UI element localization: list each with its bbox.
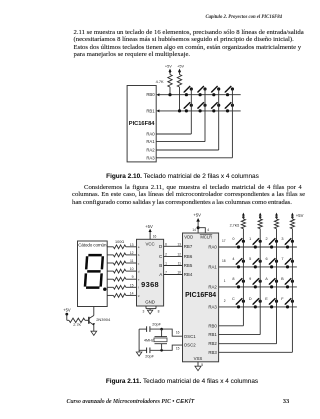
svg-text:C: C	[232, 297, 235, 301]
svg-text:6: 6	[265, 257, 267, 261]
svg-text:+5V: +5V	[296, 213, 304, 218]
svg-text:RB2: RB2	[208, 341, 217, 346]
svg-text:RB4: RB4	[184, 272, 193, 277]
svg-text:20pF: 20pF	[145, 355, 154, 359]
svg-text:12: 12	[130, 251, 134, 255]
svg-text:14: 14	[130, 291, 134, 295]
svg-text:18: 18	[222, 259, 226, 263]
svg-text:RA2: RA2	[146, 148, 155, 153]
svg-text:2: 2	[265, 237, 267, 241]
svg-text:RB3: RB3	[208, 350, 217, 355]
svg-text:2: 2	[165, 253, 167, 257]
svg-text:RA1: RA1	[146, 139, 155, 144]
svg-text:RA2: RA2	[208, 284, 217, 289]
svg-text:7: 7	[281, 257, 283, 261]
svg-text:RA3: RA3	[146, 155, 155, 160]
svg-text:13: 13	[130, 243, 134, 247]
svg-text:VDD: VDD	[184, 235, 193, 240]
svg-text:+5V: +5V	[145, 224, 153, 229]
svg-text:2N3904: 2N3904	[96, 317, 111, 322]
svg-text:20pF: 20pF	[152, 322, 161, 326]
svg-text:RA0: RA0	[146, 132, 155, 137]
svg-text:RB0: RB0	[208, 323, 217, 328]
svg-text:RB0: RB0	[146, 92, 155, 97]
svg-text:11: 11	[130, 259, 134, 263]
svg-text:D: D	[249, 297, 252, 301]
svg-text:100Ω: 100Ω	[115, 240, 124, 244]
svg-text:RB1: RB1	[208, 332, 217, 337]
svg-text:MCLR: MCLR	[200, 235, 212, 240]
svg-text:9368: 9368	[141, 280, 159, 289]
svg-text:16: 16	[176, 331, 180, 335]
svg-text:8: 8	[232, 277, 234, 281]
svg-text:GND: GND	[145, 300, 155, 305]
svg-text:6: 6	[165, 243, 167, 247]
svg-text:9: 9	[132, 275, 134, 279]
svg-text:4: 4	[207, 228, 209, 232]
svg-text:3: 3	[143, 310, 145, 314]
svg-text:+5V: +5V	[193, 212, 201, 217]
svg-text:9: 9	[249, 277, 251, 281]
svg-text:Cátodo común: Cátodo común	[78, 242, 107, 247]
svg-text:4MHz: 4MHz	[144, 338, 154, 342]
svg-text:VCC: VCC	[145, 242, 154, 247]
svg-text:10: 10	[177, 271, 181, 275]
svg-text:15: 15	[130, 283, 134, 287]
svg-text:4: 4	[232, 257, 234, 261]
svg-text:+5V: +5V	[177, 65, 184, 69]
svg-text:2,7kΩ: 2,7kΩ	[230, 223, 240, 227]
svg-text:5: 5	[249, 257, 251, 261]
svg-text:RB1: RB1	[146, 108, 155, 113]
svg-text:10: 10	[130, 267, 134, 271]
svg-text:RA1: RA1	[208, 264, 217, 269]
svg-text:17: 17	[222, 239, 226, 243]
svg-text:15: 15	[176, 347, 180, 351]
svg-text:PIC16F84: PIC16F84	[129, 121, 155, 127]
svg-text:5: 5	[201, 363, 203, 367]
svg-text:2: 2	[224, 299, 226, 303]
svg-text:RA0: RA0	[208, 245, 217, 250]
svg-text:OSC2: OSC2	[184, 343, 196, 348]
svg-text:2.7K: 2.7K	[73, 323, 81, 327]
svg-text:1: 1	[249, 237, 251, 241]
svg-text:3: 3	[281, 237, 283, 241]
svg-text:OSC1: OSC1	[184, 334, 196, 339]
svg-text:RA3: RA3	[208, 304, 217, 309]
svg-text:RB6: RB6	[184, 254, 193, 259]
svg-text:PIC16F84: PIC16F84	[185, 292, 216, 299]
svg-text:16: 16	[153, 234, 157, 238]
svg-text:0: 0	[232, 237, 234, 241]
svg-text:A: A	[265, 277, 268, 281]
svg-text:14: 14	[192, 228, 196, 232]
svg-text:B: B	[281, 277, 284, 281]
svg-text:12: 12	[177, 253, 181, 257]
svg-text:11: 11	[178, 262, 182, 266]
svg-text:+5V: +5V	[165, 65, 172, 69]
svg-text:RB5: RB5	[184, 263, 193, 268]
svg-text:1: 1	[165, 262, 167, 266]
svg-text:B: B	[159, 263, 162, 268]
svg-text:+5V: +5V	[63, 307, 71, 312]
svg-text:VSS: VSS	[194, 356, 203, 361]
svg-text:13: 13	[177, 243, 181, 247]
svg-text:4.7K: 4.7K	[156, 79, 164, 84]
svg-text:8: 8	[158, 309, 160, 313]
svg-text:E: E	[265, 297, 268, 301]
svg-text:1: 1	[224, 279, 226, 283]
svg-text:F: F	[281, 297, 284, 301]
svg-text:RB7: RB7	[184, 244, 193, 249]
svg-text:7: 7	[165, 271, 167, 275]
